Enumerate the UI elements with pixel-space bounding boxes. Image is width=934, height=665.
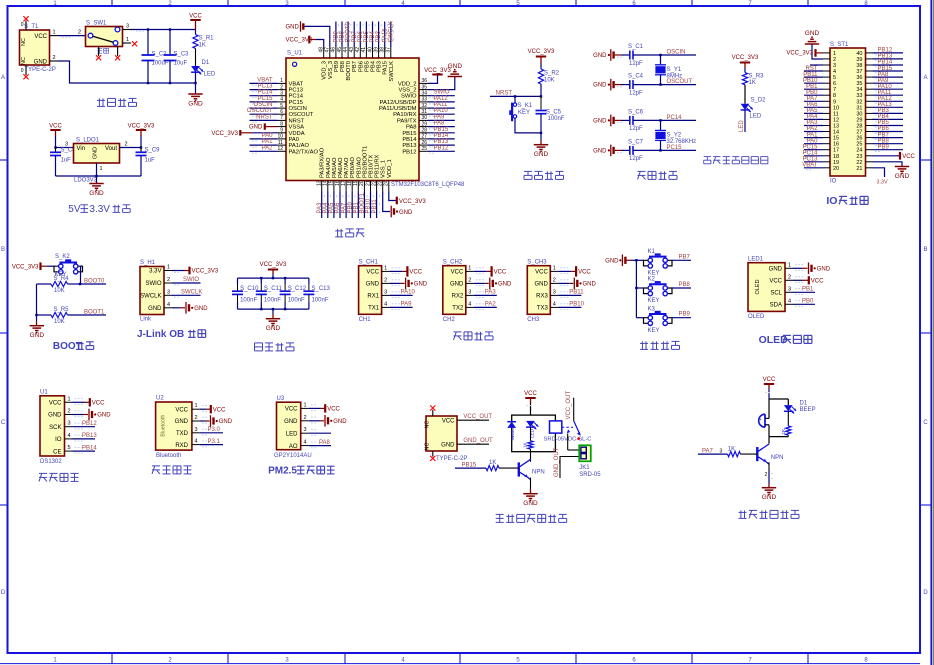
wire net PA6 ST1 left — [804, 106, 823, 108]
wire net PB14 — [73, 450, 96, 452]
capacitor S_C10 100nF — [237, 278, 239, 284]
wire OLED GND — [793, 267, 802, 269]
flyback diode relay — [507, 422, 516, 428]
svg-text:PB13: PB13 — [878, 54, 893, 60]
svg-text:26: 26 — [856, 136, 862, 142]
svg-text:PA1/AO: PA1/AO — [289, 143, 310, 149]
buzzer — [764, 414, 766, 427]
svg-text:VSS_1: VSS_1 — [381, 160, 387, 178]
title 串口电路 — [454, 331, 462, 333]
svg-text:OLED: OLED — [755, 279, 761, 294]
pin 3 PC14 left of U1 — [277, 95, 286, 97]
pin 37 right of ST1 — [866, 70, 873, 72]
pin 2 PC13 left of U1 — [277, 89, 286, 91]
svg-text:41: 41 — [361, 47, 367, 53]
wire net PA11 ST1 right — [873, 94, 904, 96]
svg-text:RX1: RX1 — [367, 294, 379, 300]
svg-text:4: 4 — [384, 301, 387, 307]
svg-text:3: 3 — [553, 289, 556, 295]
svg-text:VCC: VCC — [409, 270, 422, 276]
svg-text:3: 3 — [68, 421, 71, 427]
svg-text:S_K1: S_K1 — [518, 103, 533, 109]
wire net PB6 top — [359, 22, 361, 48]
svg-text:2: 2 — [195, 415, 198, 421]
switch S_SW1 — [86, 27, 123, 47]
svg-text:SWIO: SWIO — [146, 281, 162, 287]
ground GND at H1 — [185, 302, 187, 314]
alarm bottom rail — [769, 436, 788, 438]
svg-text:NC: NC — [425, 443, 431, 451]
svg-text:VCC_3V3: VCC_3V3 — [786, 50, 813, 56]
wire net OSCOUT — [250, 113, 278, 115]
svg-text:S_CH2: S_CH2 — [443, 259, 463, 265]
pin 23 VSS_1 bottom of U1 — [382, 181, 384, 192]
svg-text:GND: GND — [523, 500, 538, 507]
wire to buzzer — [768, 399, 770, 418]
connector TYPE-C-2P relay — [426, 416, 457, 451]
svg-text:3.3V: 3.3V — [149, 269, 161, 275]
wire net PA4 bottom — [327, 192, 329, 219]
svg-text:PB13: PB13 — [402, 143, 416, 149]
svg-text:VCC_3V3: VCC_3V3 — [128, 123, 155, 129]
wire to transistor collector — [768, 437, 770, 444]
wire U3 LED pin — [309, 432, 331, 434]
pin 2 SWIO of H1 — [164, 282, 172, 284]
pin 40 right of ST1 — [866, 52, 873, 54]
pin 4 PC15 left of U1 — [277, 101, 286, 103]
pin 20 PB2/BOOT1 bottom of U1 — [363, 181, 365, 192]
svg-text:GND: GND — [89, 190, 104, 197]
wire DS1302 GND — [73, 414, 84, 416]
svg-text:15: 15 — [833, 136, 839, 142]
svg-text:5: 5 — [68, 445, 71, 451]
svg-text:10K: 10K — [544, 78, 555, 84]
pin 1 VBAT left of U1 — [277, 82, 286, 84]
wire net SWIO — [428, 95, 455, 97]
svg-text:3: 3 — [384, 289, 387, 295]
wire net PA5 bottom — [333, 192, 335, 219]
pin 22 right of ST1 — [866, 161, 873, 163]
wire S_CH2 GND — [474, 282, 485, 284]
ground GND at S_CH2 — [489, 278, 491, 290]
switch unused bottom pins with no-ERC — [98, 47, 100, 57]
svg-text:VCC: VCC — [451, 270, 464, 276]
wire net PC15 — [250, 101, 278, 103]
power port VCC_3V3 below U1 — [396, 197, 398, 205]
svg-text:Vout: Vout — [105, 146, 117, 152]
svg-text:VCC: VCC — [366, 270, 379, 276]
pin 2 GND of U3 — [301, 420, 309, 422]
power VCC at S_CH2 — [491, 266, 493, 276]
pin 3 SCL of LED1 — [785, 291, 793, 293]
pin 27 PB14 right of U1 — [419, 138, 428, 140]
svg-text:12pF: 12pF — [629, 61, 643, 67]
svg-text:PB9: PB9 — [679, 312, 691, 318]
svg-text:NC: NC — [21, 57, 27, 65]
svg-text:TYPE-C-2P: TYPE-C-2P — [436, 456, 467, 462]
wire net PB14 ST1 right — [873, 64, 904, 66]
svg-text:3: 3 — [280, 91, 283, 97]
svg-text:Link: Link — [140, 317, 152, 323]
pin 3 LED of U3 — [301, 432, 309, 434]
wire cap C2 branch — [147, 30, 149, 54]
wire emitter to GND — [530, 459, 532, 461]
pin 17 left of ST1 — [823, 149, 830, 151]
svg-text:S_CH3: S_CH3 — [527, 259, 547, 265]
svg-text:PA9: PA9 — [434, 114, 446, 120]
svg-text:8MHz: 8MHz — [667, 74, 683, 80]
svg-text:PB11: PB11 — [569, 290, 584, 296]
wire VCC to LDO Vin — [56, 136, 74, 148]
capacitor S_C7 12pF — [629, 146, 631, 155]
pin 4 TX1 of S_CH1 — [382, 306, 390, 308]
wire net PB6 ST1 right — [873, 131, 904, 133]
svg-text:PB15: PB15 — [402, 131, 416, 137]
pin 15 left of ST1 — [823, 137, 830, 139]
wire net PB4 top — [372, 22, 374, 48]
svg-text:0: 0 — [21, 22, 24, 28]
svg-text:PB14: PB14 — [434, 133, 449, 139]
svg-text:20: 20 — [833, 166, 839, 172]
pin 1 VCC of U2 — [192, 408, 200, 410]
svg-text:1uF: 1uF — [145, 158, 156, 164]
wire net PA3 ST1 left — [804, 125, 823, 127]
svg-text:19: 19 — [353, 180, 359, 186]
wire net PA8 ST1 right — [873, 76, 904, 78]
svg-text:SRD-05: SRD-05 — [579, 472, 601, 478]
wire net VBAT ST1 left — [804, 167, 823, 169]
wire S_CH1 VCC — [390, 270, 403, 272]
button K2 KEY — [644, 288, 649, 294]
svg-text:GND: GND — [593, 83, 607, 89]
pin 11 left of ST1 — [823, 112, 830, 114]
connector S_CH3 — [527, 266, 550, 315]
svg-text:VCC_3V3: VCC_3V3 — [732, 55, 759, 61]
svg-text:PA5/AO: PA5/AO — [332, 157, 338, 178]
svg-text:24: 24 — [856, 148, 862, 154]
wire net SWCLK top — [390, 22, 392, 48]
wire S_CH2 RX net PA3 — [474, 294, 497, 296]
base resistor 1K alarm — [728, 452, 741, 457]
svg-text:GND: GND — [333, 419, 347, 425]
svg-text:GND: GND — [817, 267, 831, 273]
svg-text:VCC: VCC — [494, 270, 507, 276]
capacitor S_C2 100uF — [147, 54, 149, 56]
pin 34 right of ST1 — [866, 88, 873, 90]
wire S_C1 left — [621, 54, 630, 56]
pin 38 right of ST1 — [866, 64, 873, 66]
svg-text:SWCLK: SWCLK — [389, 61, 395, 82]
svg-text:VCC_3V3: VCC_3V3 — [260, 262, 287, 268]
svg-text:VCC_3V3: VCC_3V3 — [211, 131, 238, 137]
svg-text:PA0: PA0 — [262, 133, 274, 139]
svg-text:S_R1: S_R1 — [199, 36, 215, 42]
svg-text:12: 12 — [833, 117, 839, 123]
svg-text:GP2Y1014AU: GP2Y1014AU — [274, 453, 312, 459]
display LED1 OLED — [748, 263, 785, 312]
svg-text:PA4/AO: PA4/AO — [326, 157, 332, 178]
svg-text:PB10: PB10 — [569, 302, 584, 308]
capacitor S_C4 12pF — [629, 80, 631, 89]
svg-text:PB7: PB7 — [352, 61, 358, 72]
svg-text:BEEP: BEEP — [800, 407, 816, 413]
svg-text:3: 3 — [195, 427, 198, 433]
svg-text:PA9/TX: PA9/TX — [397, 118, 417, 124]
svg-text:VCC: VCC — [327, 407, 340, 413]
wire resistor to base — [499, 467, 519, 469]
svg-text:SCK: SCK — [49, 425, 61, 431]
frame column ticks top — [111, 0, 113, 6]
svg-text:PB3: PB3 — [377, 61, 383, 72]
wire net RST ST1 left — [804, 70, 823, 72]
resistor S_R2 10K — [540, 64, 542, 70]
wire net PA8 — [309, 445, 331, 447]
svg-text:NRST: NRST — [256, 114, 273, 120]
svg-text:D: D — [1, 590, 6, 596]
module U3 GP2Y1014AU — [277, 402, 301, 450]
svg-text:1uF: 1uF — [61, 158, 72, 164]
wire S_CH1 TX net PA9 — [390, 306, 413, 308]
svg-text:VBAT: VBAT — [289, 81, 304, 87]
svg-text:VCC_3V3: VCC_3V3 — [399, 199, 426, 205]
svg-text:VBAT: VBAT — [802, 163, 818, 169]
svg-text:1K: 1K — [199, 43, 206, 49]
title 程序运行指示灯 — [704, 156, 711, 158]
svg-text:PA6: PA6 — [807, 102, 819, 108]
wire pin 22 to GND — [873, 162, 903, 167]
svg-text:PB8: PB8 — [679, 282, 691, 288]
pin 29 PA8 right of U1 — [419, 126, 428, 128]
svg-text:VCC: VCC — [578, 270, 591, 276]
svg-text:2: 2 — [553, 277, 556, 283]
pin 3 TXD of U2 — [192, 432, 200, 434]
svg-text:GND: GND — [498, 282, 512, 288]
svg-text:LED: LED — [739, 120, 745, 132]
svg-text:100nF: 100nF — [312, 298, 329, 304]
pin 12 left of ST1 — [823, 118, 830, 120]
svg-text:2: 2 — [167, 277, 170, 283]
svg-text:PA8: PA8 — [434, 121, 446, 127]
svg-text:10: 10 — [833, 105, 839, 111]
svg-text:GND: GND — [593, 53, 607, 59]
pin 12 PA2/TX/AO left of U1 — [277, 150, 286, 152]
svg-text:PC15: PC15 — [257, 96, 273, 102]
svg-text:2: 2 — [68, 409, 71, 415]
svg-text:PB0: PB0 — [802, 299, 814, 305]
svg-text:S_D2: S_D2 — [751, 98, 767, 104]
svg-text:PA10: PA10 — [434, 108, 449, 114]
svg-text:20: 20 — [359, 180, 365, 186]
svg-text:1: 1 — [167, 265, 170, 271]
svg-text:S_Y1: S_Y1 — [667, 67, 682, 73]
wire net PB12 — [73, 426, 96, 428]
pin 20 left of ST1 — [823, 167, 830, 169]
wire net PB7 top — [353, 22, 355, 48]
svg-text:PC13: PC13 — [289, 88, 304, 94]
wire VCC to relay top rail — [530, 404, 532, 416]
title 晶振电路 — [638, 170, 646, 172]
svg-text:CH3: CH3 — [527, 317, 540, 323]
svg-text:OSCIN: OSCIN — [253, 102, 272, 108]
svg-text:NC: NC — [425, 421, 431, 429]
pin 5 left of ST1 — [823, 76, 830, 78]
ground GND at U3 — [324, 415, 326, 427]
svg-text:PC14: PC14 — [802, 150, 818, 156]
wire net PB12 ST1 right — [873, 52, 904, 54]
filter top rail — [238, 277, 309, 279]
wire net PA2 ST1 left — [804, 131, 823, 133]
pin 32 right of ST1 — [866, 100, 873, 102]
no-ERC top relay connector — [432, 410, 434, 416]
alarm resistor 1K — [787, 411, 789, 426]
svg-text:39: 39 — [373, 47, 379, 53]
wire net VBAT — [250, 82, 278, 84]
svg-text:CH1: CH1 — [359, 317, 372, 323]
wire net PB5 top — [365, 22, 367, 48]
pin 2 GND of DS1302 — [65, 414, 73, 416]
svg-text:3: 3 — [720, 448, 723, 454]
svg-text:GND: GND — [441, 442, 455, 448]
svg-text:4: 4 — [68, 433, 71, 439]
wire net PB14 — [428, 138, 455, 140]
pin 3 SWCLK of H1 — [164, 294, 172, 296]
svg-text:P3.1: P3.1 — [208, 439, 221, 445]
pin 21 PB10/TX bottom of U1 — [370, 181, 372, 192]
pin 35 VSS_2 right of U1 — [419, 89, 428, 91]
no-ERC cross top T1 — [23, 16, 28, 21]
pin 34 SWIO right of U1 — [419, 95, 428, 97]
wire cap C3 branch — [169, 30, 171, 54]
wire bus to K2 — [636, 287, 643, 289]
svg-text:PC15: PC15 — [289, 100, 304, 106]
svg-text:PB11: PB11 — [372, 199, 378, 214]
svg-text:GND: GND — [583, 282, 597, 288]
svg-text:GND: GND — [534, 282, 548, 288]
connector S_T1 TYPE-C-2P — [20, 30, 50, 65]
svg-text:32: 32 — [422, 103, 428, 109]
no-ERC bottom relay connector — [432, 451, 434, 457]
pin 29 right of ST1 — [866, 118, 873, 120]
wire net PA2 — [250, 150, 278, 152]
svg-text:PA1: PA1 — [262, 139, 274, 145]
wire net PA1 ST1 left — [804, 137, 823, 139]
wire U2 VCC — [200, 408, 206, 410]
pin 8 VSSA left of U1 — [277, 126, 286, 128]
pin 9 VDDA left of U1 — [277, 132, 286, 134]
wire S_CH1 RX net PA10 — [390, 294, 413, 296]
svg-text:BOOT1: BOOT1 — [360, 192, 366, 213]
power VCC at S_CH3 — [575, 266, 577, 276]
pin 3 RX3 of S_CH3 — [550, 294, 558, 296]
svg-text:U1: U1 — [40, 389, 48, 395]
wire net PA7 bottom — [345, 192, 347, 219]
wire net PB3 top — [378, 22, 380, 48]
title 复位电路 — [524, 170, 532, 172]
svg-text:IN4007: IN4007 — [510, 425, 515, 440]
pin 1 VCC of S_CH3 — [550, 270, 558, 272]
svg-text:8: 8 — [833, 93, 836, 99]
svg-text:36: 36 — [856, 75, 862, 81]
svg-text:0: 0 — [21, 68, 24, 74]
ground GND alarm — [762, 487, 776, 489]
wire net PA11 — [428, 107, 455, 109]
wire R3 to LED D2 — [744, 85, 746, 104]
pin 9 left of ST1 — [823, 100, 830, 102]
wire R2 to NRST node — [540, 84, 542, 96]
pin 7 NRST left of U1 — [277, 119, 286, 121]
svg-text:PA2: PA2 — [807, 126, 819, 132]
svg-text:RX2: RX2 — [452, 294, 464, 300]
relay switch arm — [574, 421, 581, 436]
svg-text:GND_OUT: GND_OUT — [463, 438, 493, 444]
title 声光报警电路 — [740, 510, 742, 518]
ground GND relay — [523, 493, 537, 495]
svg-text:LED: LED — [750, 114, 762, 120]
wire filter to GND — [272, 309, 274, 313]
svg-text:100nF: 100nF — [264, 298, 281, 304]
wire D2 to net LED — [744, 110, 746, 132]
wire net PB0 — [793, 303, 815, 305]
svg-text:PC15: PC15 — [667, 145, 683, 151]
capacitor S_C12 100nF — [284, 278, 286, 284]
pin 16 left of ST1 — [823, 143, 830, 145]
svg-text:VCC_3V3: VCC_3V3 — [12, 264, 39, 270]
pin 1 VCC of S_CH2 — [466, 270, 474, 272]
ground GND at OLED — [808, 263, 810, 275]
wire S_CH3 RX net PB11 — [558, 294, 581, 296]
svg-text:1: 1 — [195, 403, 198, 409]
wire net PB4 ST1 right — [873, 118, 904, 120]
svg-text:VBAT: VBAT — [257, 77, 273, 83]
svg-text:PB12: PB12 — [434, 145, 449, 151]
wire net PA9 — [428, 119, 455, 121]
pin 14 PA4/AO bottom of U1 — [327, 181, 329, 192]
wire U3 GND — [309, 420, 320, 422]
svg-text:BOOT: BOOT — [53, 341, 82, 352]
svg-text:LDO3V3: LDO3V3 — [74, 178, 98, 184]
svg-text:1: 1 — [304, 402, 307, 408]
svg-text:PA13: PA13 — [878, 102, 893, 108]
svg-text:24: 24 — [384, 180, 390, 186]
wire VDD_2 to VCC_3V3 port — [428, 75, 438, 84]
svg-text:AO: AO — [289, 444, 298, 450]
button S_K2 KEY — [54, 266, 59, 272]
pin 33 PA12/USB/DP right of U1 — [419, 101, 428, 103]
svg-text:PB1: PB1 — [802, 287, 814, 293]
wire R1 to LED D1 — [195, 49, 197, 67]
power VCC at ST1 pin 23 — [873, 155, 900, 157]
wire S_CH3 VCC — [558, 270, 571, 272]
svg-text:30: 30 — [422, 115, 428, 121]
svg-text:SWIO: SWIO — [401, 94, 417, 100]
power VCC at S_CH1 — [406, 266, 408, 276]
pin 2 VCC of LED1 — [785, 279, 793, 281]
ground GND filter — [266, 318, 280, 320]
svg-text:39: 39 — [856, 57, 862, 63]
svg-text:2: 2 — [384, 277, 387, 283]
svg-text:PA8: PA8 — [406, 125, 417, 131]
pin 26 right of ST1 — [866, 137, 873, 139]
wire pin 21 to 3.3V — [873, 168, 885, 177]
svg-text:PB15: PB15 — [434, 127, 449, 133]
svg-text:PB8: PB8 — [340, 61, 346, 72]
svg-text:VSS_2: VSS_2 — [398, 88, 416, 94]
svg-text:PA0: PA0 — [289, 137, 300, 143]
svg-text:LED1: LED1 — [748, 256, 764, 262]
svg-text:GND: GND — [450, 282, 464, 288]
svg-text:PA15: PA15 — [383, 61, 389, 75]
svg-text:5: 5 — [833, 75, 836, 81]
